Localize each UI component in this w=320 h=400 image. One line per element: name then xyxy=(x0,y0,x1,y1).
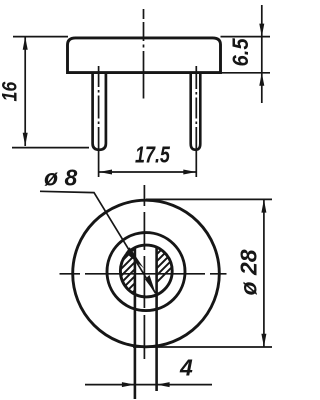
svg-text:4: 4 xyxy=(179,355,193,381)
extension line, cap top to left xyxy=(13,36,68,38)
arrowhead 6.5 top xyxy=(259,24,264,37)
svg-text:ø 8: ø 8 xyxy=(44,165,77,191)
cap outline (side view body) xyxy=(68,38,221,73)
hatching of right lune xyxy=(105,190,186,334)
right chord of slot / extension line for 4 xyxy=(155,248,158,391)
arrowhead 17.5 left xyxy=(99,170,112,175)
extension line, pin bottom level (dim 16) xyxy=(12,147,89,149)
arrowhead 16 top xyxy=(23,37,28,50)
hatching of left lune xyxy=(105,190,186,334)
dimension line 6.5 (outside arrows) xyxy=(261,5,263,103)
extension line, circle bottom to right (Ø28) xyxy=(133,346,272,348)
arrowhead 4 left xyxy=(122,382,135,387)
svg-text:16: 16 xyxy=(0,82,22,102)
dimension line Ø28 xyxy=(263,199,265,347)
dimension line 17.5 xyxy=(99,171,196,173)
dimension line 16 xyxy=(24,37,26,146)
inner circle Ø8 (bottom view) xyxy=(120,245,172,297)
middle circle (bottom view) xyxy=(107,233,185,311)
leader line for Ø8 xyxy=(40,191,156,293)
big circle Ø28 (bottom view) xyxy=(73,200,220,347)
right pin center line (dash-dot), also extension for 17.5 xyxy=(195,66,197,179)
arrowhead Ø28 bottom xyxy=(261,334,266,347)
leader arrow stroke (upper) xyxy=(126,247,144,268)
right pin outline xyxy=(191,74,201,150)
vertical center line of bottom view xyxy=(143,185,145,359)
horizontal center line of bottom view xyxy=(60,273,227,275)
left pin center line (dash-dot), also extension for 17.5 xyxy=(98,66,100,179)
svg-text:6.5: 6.5 xyxy=(229,38,253,66)
dimension line 4 (outside arrows) xyxy=(85,384,212,386)
svg-text:ø 28: ø 28 xyxy=(236,249,262,295)
arrowhead 6.5 bottom xyxy=(259,73,264,86)
arrowhead 17.5 right xyxy=(183,170,196,175)
extension line, circle top to right (Ø28) xyxy=(146,198,272,200)
left pin outline xyxy=(93,74,106,150)
svg-text:17.5: 17.5 xyxy=(135,142,170,168)
arrowhead 16 bottom xyxy=(23,133,28,146)
arrowhead Ø28 top xyxy=(261,199,266,212)
leader arrowhead (tip at far side of Ø8) xyxy=(145,275,156,294)
arrowhead 4 right xyxy=(157,382,170,387)
extension line, cap bottom to right (dim 6.5) xyxy=(221,72,271,74)
extension line, cap top to right (dim 6.5) xyxy=(221,36,271,38)
left chord of slot / extension line for 4 xyxy=(134,248,137,399)
main vertical center line of side view xyxy=(143,9,145,99)
